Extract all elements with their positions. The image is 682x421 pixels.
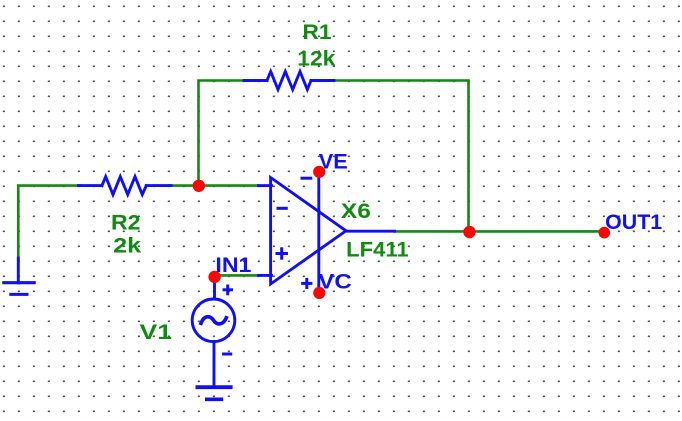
svg-text:VE: VE: [319, 149, 348, 173]
svg-text:12k: 12k: [297, 47, 335, 71]
svg-text:R1: R1: [303, 20, 332, 44]
svg-text:OUT1: OUT1: [605, 210, 662, 234]
svg-text:V1: V1: [140, 320, 173, 344]
svg-text:2k: 2k: [113, 233, 141, 257]
svg-text:IN1: IN1: [215, 253, 251, 277]
svg-text:VC: VC: [318, 270, 352, 294]
svg-text:X6: X6: [341, 199, 371, 223]
svg-text:LF411: LF411: [346, 238, 409, 262]
svg-text:R2: R2: [111, 210, 141, 234]
